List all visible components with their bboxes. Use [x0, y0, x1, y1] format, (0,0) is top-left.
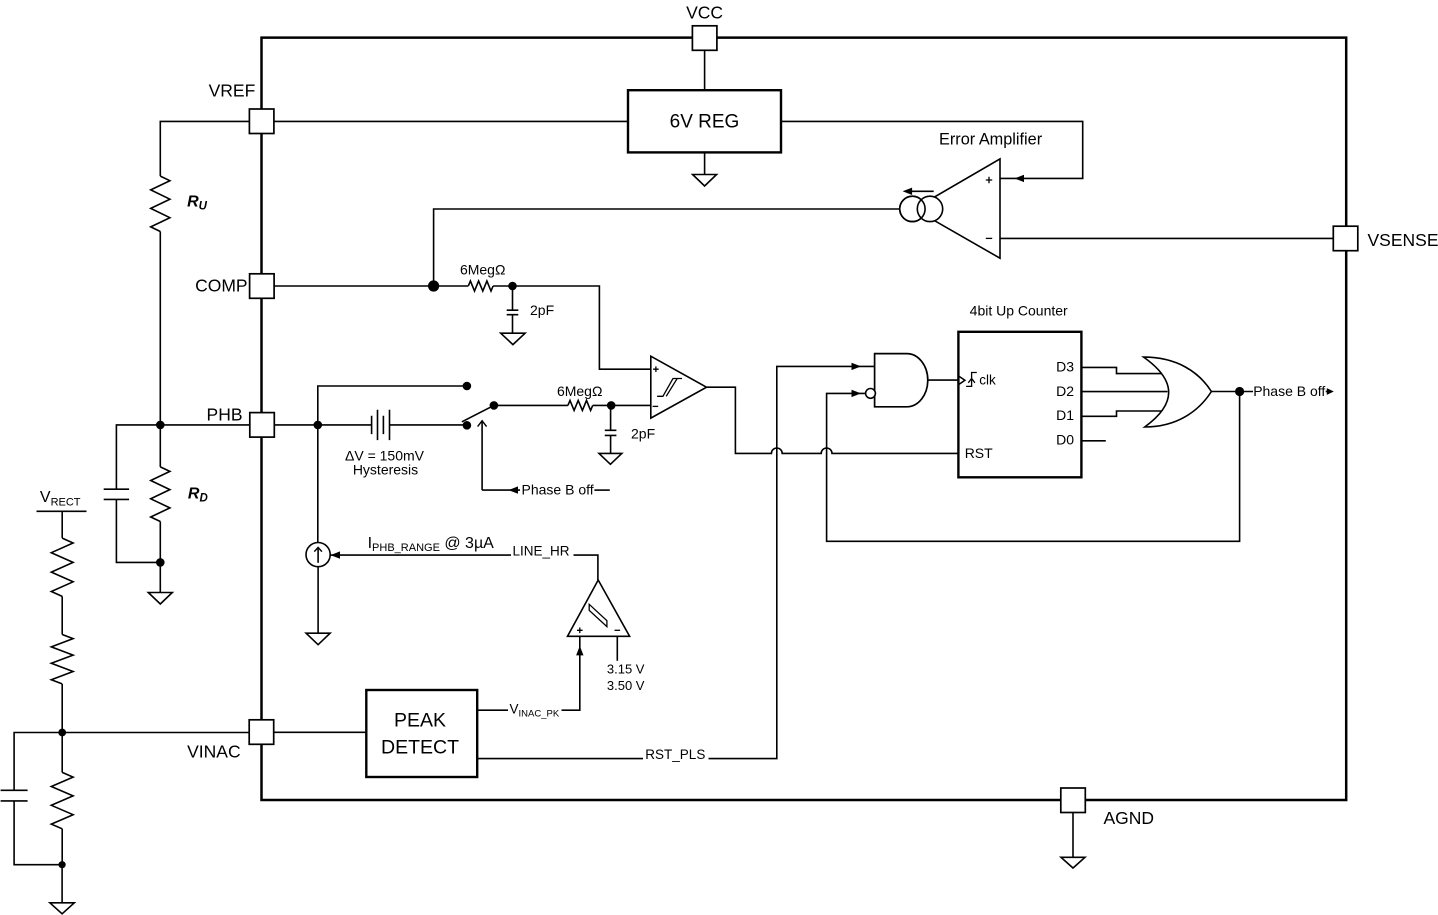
node switch upper contact	[463, 382, 472, 391]
pin VINAC	[249, 720, 274, 745]
resistor divider upper R1	[51, 538, 73, 596]
svg-text:D3: D3	[1056, 358, 1074, 374]
wire VCC pin to 6V REG	[704, 50, 706, 90]
resistor divider lower R3	[51, 772, 73, 828]
resistor 6MegOhm lower	[568, 400, 593, 410]
svg-text:4bit Up Counter: 4bit Up Counter	[970, 302, 1068, 318]
wire R1 to R2	[61, 596, 63, 634]
error amplifier plus sign	[986, 177, 992, 183]
current source IPHB_RANGE circle	[306, 543, 330, 567]
svg-text:VINAC_PK: VINAC_PK	[510, 701, 560, 719]
svg-text:DETECT: DETECT	[381, 736, 459, 758]
node switch pivot	[490, 401, 499, 410]
svg-text:6MegΩ: 6MegΩ	[557, 383, 603, 399]
node divider bottom junction	[59, 861, 66, 868]
svg-text:COMP: COMP	[195, 276, 248, 296]
arrowhead into current source	[331, 551, 341, 558]
comparator U2 minus sign	[615, 629, 621, 631]
svg-text:VINAC: VINAC	[187, 741, 240, 761]
wire error amp output to COMP node	[434, 209, 900, 286]
pin PHB	[250, 413, 274, 438]
node after 6Meg upper	[508, 282, 517, 291]
node Phase B off	[1235, 387, 1244, 396]
wire VREF to RU	[160, 121, 249, 176]
ground below 2pF lower	[599, 453, 622, 464]
pin VREF	[249, 109, 274, 134]
block PEAK DETECT	[366, 690, 477, 777]
node VINAC divider junction	[58, 729, 66, 737]
capacitor parallel to RD	[104, 489, 129, 499]
ground below AGND	[1061, 857, 1085, 868]
pin VCC	[692, 26, 717, 51]
svg-text:PHB: PHB	[207, 404, 243, 424]
wire LINE_HR to comparator U2 output	[574, 555, 598, 580]
op-amp error amplifier triangle	[914, 159, 1000, 258]
comparator U1 minus sign	[653, 405, 659, 407]
resistor 6MegOhm upper	[468, 281, 493, 291]
block 4bit up counter	[958, 332, 1081, 478]
wire error amp - input to VSENSE	[1000, 237, 1333, 239]
nand input bubble	[866, 389, 876, 399]
svg-text:RST_PLS: RST_PLS	[645, 747, 705, 762]
capacitor VINAC filter	[1, 790, 28, 801]
svg-text:D2: D2	[1056, 383, 1074, 399]
switch blade	[462, 405, 494, 421]
comparator U2 hysteresis glyph	[589, 604, 607, 626]
wire junction to 2pF lower	[610, 405, 612, 430]
svg-text:clk: clk	[979, 373, 996, 388]
resistor RU	[151, 176, 170, 231]
wire D2 to OR gate	[1081, 391, 1167, 393]
wire battery to switch lower contact	[390, 424, 467, 426]
IC boundary box	[262, 38, 1347, 800]
wire filter cap to VINAC node	[14, 733, 62, 791]
svg-text:2pF: 2pF	[530, 302, 554, 318]
wire PHB node up to switch upper contact	[318, 386, 467, 425]
comparator U1 plus sign	[653, 366, 659, 372]
svg-text:Phase B off: Phase B off	[1253, 383, 1325, 399]
svg-text:AGND: AGND	[1104, 808, 1155, 828]
svg-text:PEAK: PEAK	[394, 709, 446, 731]
svg-text:RD: RD	[188, 486, 208, 505]
wire PHB pin to battery	[274, 424, 371, 426]
wire current source to ground	[317, 567, 319, 634]
svg-text:3.50 V: 3.50 V	[607, 678, 645, 693]
wire PHB node down to current source	[317, 425, 319, 543]
node after 6Meg lower	[607, 401, 616, 410]
pin VSENSE	[1333, 226, 1358, 251]
node PHB right junction	[314, 421, 323, 430]
current source arrow	[317, 547, 319, 562]
wire VINAC_PK to U2 + input	[562, 636, 580, 710]
wire D3 to OR gate	[1081, 367, 1163, 373]
ground below 6V REG	[693, 175, 717, 187]
wire Phase B off feedback to NAND bottom input	[827, 392, 1240, 542]
wire RD junction to ground	[159, 562, 161, 592]
comparator U2 plus sign	[577, 628, 583, 634]
pin AGND	[1061, 788, 1086, 813]
svg-text:LINE_HR: LINE_HR	[513, 543, 570, 558]
svg-text:Hysteresis: Hysteresis	[353, 461, 418, 477]
node RD bottom junction	[156, 558, 165, 567]
pin COMP	[250, 274, 275, 299]
svg-text:D0: D0	[1056, 432, 1074, 448]
current direction arrow above circles	[912, 190, 934, 192]
ground below 2pF upper	[501, 333, 525, 344]
wire bottom junction to ground	[61, 865, 63, 903]
wire 2pF lower to ground	[610, 435, 612, 453]
svg-text:VRECT: VRECT	[40, 489, 81, 509]
resistor RD	[151, 467, 170, 522]
wire cap to bottom junction	[116, 499, 160, 562]
comparator U1 hysteresis glyph	[657, 379, 682, 397]
capacitor 2pF upper	[507, 310, 519, 315]
wire D1 to OR gate	[1081, 411, 1161, 416]
comparator U1 triangle	[651, 356, 707, 418]
wire bottom junction to filter cap	[14, 801, 62, 865]
wire RST_PLS riser to NAND top input	[709, 366, 875, 758]
counter rising edge glyph	[966, 373, 977, 387]
svg-text:2pF: 2pF	[631, 426, 655, 442]
svg-text:VCC: VCC	[686, 2, 723, 22]
wire RD node to parallel cap branch	[116, 425, 160, 489]
wire switch pivot to 6Meg lower	[494, 404, 568, 406]
wire RD bottom lead	[159, 522, 161, 563]
node COMP junction	[428, 280, 439, 291]
wire D0 stub	[1081, 440, 1105, 442]
arrowhead up into U2 + input	[576, 646, 583, 656]
svg-text:6V REG: 6V REG	[670, 112, 740, 133]
dash after Phase B off label	[594, 489, 609, 491]
wire divider junction to VINAC pin	[62, 732, 249, 734]
node switch lower contact	[463, 421, 472, 430]
wire 2pF to ground	[512, 315, 514, 334]
svg-text:VSENSE: VSENSE	[1368, 230, 1438, 250]
wire junction to R3	[61, 733, 63, 773]
ground below RD	[148, 593, 172, 605]
capacitor 2pF lower	[605, 430, 617, 435]
resistor divider upper R2	[51, 635, 73, 684]
wire VRECT to R1	[61, 511, 63, 538]
wire PHB pin left to RD node	[160, 424, 250, 426]
wire COMP pin to junction	[274, 285, 468, 287]
arrow Phase B off to right	[1326, 391, 1328, 393]
switch control arrow up	[481, 421, 483, 491]
wire RST_PLS from peak detect	[477, 758, 643, 760]
wire U1 output to counter RST with hops	[707, 387, 959, 453]
or gate U4	[1144, 357, 1212, 427]
battery delta-V hysteresis	[372, 410, 390, 440]
svg-text:3.15 V: 3.15 V	[607, 661, 645, 676]
wire 6V REG to error amp + input	[781, 121, 1083, 178]
wire VINAC pin to PEAK DETECT	[274, 731, 367, 733]
wire RD top lead	[159, 425, 161, 467]
arrowhead into error amp + input	[1015, 175, 1025, 182]
wire OR output to Phase B off node	[1211, 391, 1253, 393]
svg-text:D1: D1	[1056, 407, 1074, 423]
svg-text:RST: RST	[965, 445, 993, 461]
node RD top junction	[156, 421, 165, 430]
ground below divider	[50, 903, 74, 914]
block 6V REG	[628, 90, 781, 152]
switch control horizontal line	[482, 489, 520, 491]
svg-text:6MegΩ: 6MegΩ	[460, 261, 506, 277]
wire AGND pin to ground	[1072, 813, 1074, 858]
wire 6Meg lower to comparator - input	[593, 404, 651, 406]
counter clk wedge	[958, 376, 965, 385]
wire resistor to comparator + input	[493, 286, 651, 369]
svg-text:VREF: VREF	[209, 81, 256, 101]
wire junction to 2pF cap	[512, 286, 514, 310]
wire VREF to 6V REG	[274, 120, 628, 122]
nand gate U3	[875, 354, 928, 407]
wire R2 to VINAC node	[61, 684, 63, 733]
wire LINE_HR to current source	[331, 554, 512, 556]
wire NAND output to counter clk	[928, 379, 959, 381]
error amplifier minus sign	[986, 237, 992, 239]
wire RU to PHB node	[159, 232, 161, 425]
svg-text:Phase B off: Phase B off	[522, 482, 594, 498]
error amplifier gm output circles	[900, 196, 925, 221]
svg-text:IPHB_RANGE @ 3µA: IPHB_RANGE @ 3µA	[368, 535, 495, 554]
arrowhead into NAND bottom input	[852, 390, 862, 397]
wire U2 minus input to threshold labels	[616, 636, 618, 661]
wire 6V REG to ground	[704, 152, 706, 174]
svg-text:Error Amplifier: Error Amplifier	[939, 130, 1043, 148]
arrowhead Phase B off toward switch	[509, 486, 519, 493]
ground below current source	[306, 633, 330, 645]
svg-text:RU: RU	[187, 194, 208, 213]
comparator U2 triangle	[568, 580, 630, 636]
wire peak detect to VINAC_PK label	[477, 709, 508, 711]
wire R3 to bottom junction	[61, 829, 63, 865]
arrowhead into NAND top input	[852, 363, 862, 370]
